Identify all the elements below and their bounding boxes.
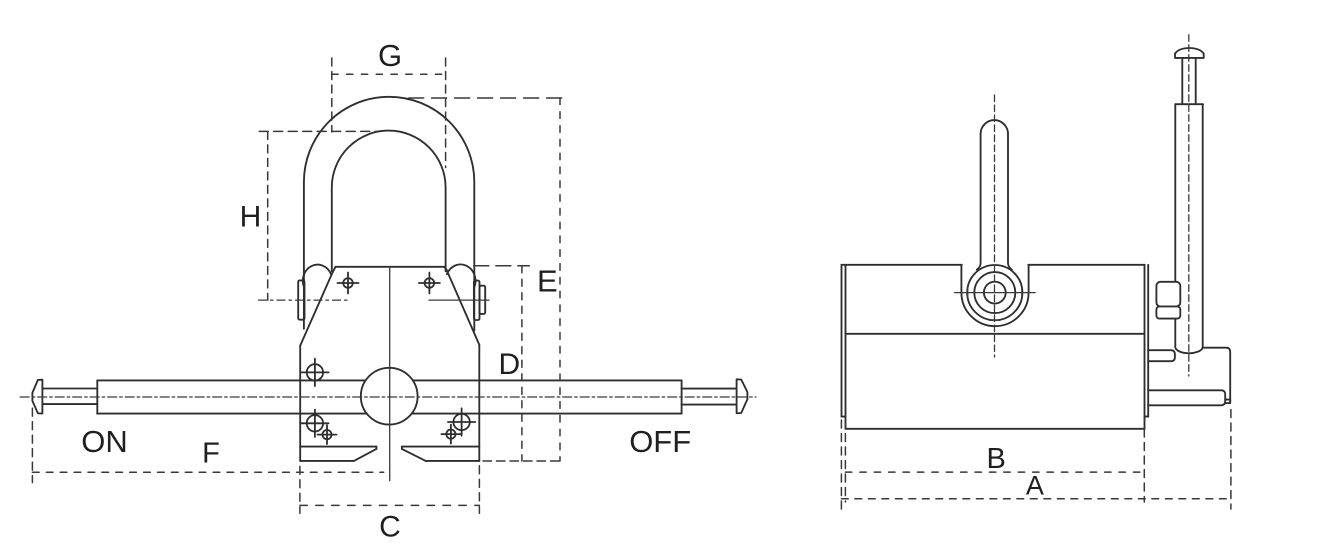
- body left corner chamfer: [332, 267, 335, 273]
- side body top edge left: [842, 264, 962, 266]
- dimension F line: [32, 471, 383, 473]
- svg-text:A: A: [1026, 471, 1044, 501]
- boss quadrant tick right: [1021, 288, 1023, 298]
- dimension E line: [559, 98, 561, 461]
- svg-text:C: C: [379, 511, 401, 544]
- body top edge: [336, 266, 445, 268]
- side body top edge right: [1028, 264, 1144, 266]
- lever bar bottom edge left segment: [97, 413, 367, 415]
- dimension A extension left: [840, 420, 842, 509]
- shackle bar cap: [981, 120, 1008, 134]
- svg-text:ON: ON: [81, 424, 128, 459]
- body bottom line left: [300, 446, 376, 448]
- side lever bar left edge: [1174, 104, 1176, 346]
- svg-text:E: E: [537, 263, 558, 298]
- shackle outer bow: [304, 97, 474, 331]
- body bottom line right: [402, 446, 479, 448]
- boss circle small: [974, 272, 1015, 313]
- dimension C extension left: [299, 466, 301, 513]
- boss circle mid: [967, 265, 1022, 320]
- bracket top edge: [1204, 348, 1231, 402]
- dimension B extension left: [844, 420, 846, 502]
- left cap plate outer: [841, 265, 843, 417]
- lever bar top edge left segment: [97, 379, 365, 381]
- side lever bar right edge: [1202, 104, 1204, 347]
- left lever shaft: [42, 389, 97, 405]
- dimension H line: [267, 131, 269, 300]
- dimension B extension right: [1143, 429, 1145, 502]
- dimension E top extension: [409, 97, 565, 99]
- side body split line: [846, 333, 1145, 335]
- left cap plate bottom: [842, 416, 846, 418]
- body vertical center line: [389, 267, 391, 481]
- side body left edge: [845, 265, 847, 429]
- foot notch right tick: [401, 447, 403, 449]
- boss vertical center line: [994, 95, 996, 357]
- boss quadrant tick bottom: [990, 319, 1000, 321]
- side lever thin shaft: [1182, 58, 1195, 104]
- svg-text:B: B: [987, 443, 1006, 475]
- right foot chamfer: [402, 449, 426, 461]
- crosshair small upper-left: [338, 273, 359, 294]
- left pivot pin: [298, 280, 304, 319]
- right knob: [737, 379, 748, 413]
- thin solid lines front: [390, 267, 489, 481]
- lever bar right step: [681, 380, 683, 413]
- foot notch left tick: [375, 447, 377, 449]
- lever bar top edge right segment: [413, 379, 682, 381]
- shackle bar right edge: [1008, 134, 1012, 270]
- right lever shaft: [682, 389, 737, 405]
- right cap plate outer: [1147, 265, 1149, 417]
- clamp upper block: [1156, 282, 1180, 307]
- body left shoulder diagonal: [300, 273, 332, 346]
- boss lower semicircle: [961, 293, 1028, 327]
- side lever axis center line: [1188, 35, 1190, 376]
- boss crosshair horizontal: [955, 292, 1036, 294]
- crosshair big mid-left: [301, 359, 328, 386]
- dimension A line: [841, 498, 1231, 500]
- axle bar: [1148, 390, 1225, 405]
- crosshair big lower-right: [448, 408, 475, 435]
- pin axis left dashed segment: [259, 299, 349, 301]
- dimension D E bottom extension: [483, 460, 561, 462]
- body left edge: [299, 346, 301, 461]
- dimension D top extension: [474, 265, 530, 267]
- left ear lug: [303, 265, 331, 288]
- axle end nub: [1225, 400, 1230, 404]
- boss quadrant tick left: [967, 288, 969, 298]
- crosshair small upper-right: [419, 273, 440, 294]
- dimension C line: [300, 504, 480, 506]
- dimension G extension left: [331, 58, 333, 132]
- boss circle bore: [984, 282, 1006, 304]
- shackle bar left edge: [977, 134, 981, 270]
- svg-text:D: D: [498, 348, 520, 381]
- boss right side: [1028, 265, 1030, 293]
- dimension B line: [845, 471, 1144, 473]
- svg-text:G: G: [378, 38, 402, 73]
- right pivot pin cap: [480, 286, 486, 314]
- right pivot pin inner: [474, 281, 480, 320]
- side body right edge: [1144, 265, 1146, 429]
- lever axis center line: [20, 396, 756, 398]
- side lever bar bottom round: [1175, 346, 1203, 353]
- side lever knob cap: [1175, 48, 1204, 58]
- body right edge: [478, 345, 480, 461]
- crosshair big lower-left: [301, 410, 328, 437]
- dimension D line: [521, 266, 523, 461]
- svg-text:F: F: [202, 438, 220, 470]
- svg-text:OFF: OFF: [629, 424, 691, 459]
- crosshair small lower-left: [318, 425, 337, 444]
- right ear lug: [447, 264, 476, 287]
- front view group: [32, 97, 747, 461]
- shackle inner bow: [332, 131, 446, 272]
- body right corner chamfer: [444, 267, 446, 270]
- body right shoulder diagonal: [446, 269, 479, 345]
- lever bar bottom edge right segment: [412, 413, 682, 415]
- crosshair small lower-right: [441, 425, 460, 444]
- left foot chamfer: [354, 449, 377, 461]
- central bore circle: [361, 368, 418, 425]
- boss left side: [960, 265, 962, 293]
- dimension F extension: [31, 408, 33, 482]
- right foot bottom: [426, 460, 480, 462]
- pin axis right segment: [429, 299, 489, 301]
- side view group: [842, 48, 1231, 429]
- side lever bar top step: [1175, 103, 1203, 105]
- right cap plate bottom: [1145, 416, 1149, 418]
- left knob: [32, 380, 42, 414]
- dimension C extension right: [478, 466, 480, 514]
- side body bottom: [846, 428, 1145, 430]
- dimension H top extension: [259, 130, 377, 132]
- lever bar left step: [96, 380, 98, 413]
- dimension G line: [332, 73, 446, 75]
- clamp lower block: [1156, 307, 1180, 319]
- left foot bottom: [300, 460, 354, 462]
- dimension G extension right: [445, 58, 447, 168]
- dimension A extension right: [1230, 410, 1232, 510]
- clamp tab: [1148, 350, 1175, 361]
- svg-text:H: H: [240, 200, 262, 233]
